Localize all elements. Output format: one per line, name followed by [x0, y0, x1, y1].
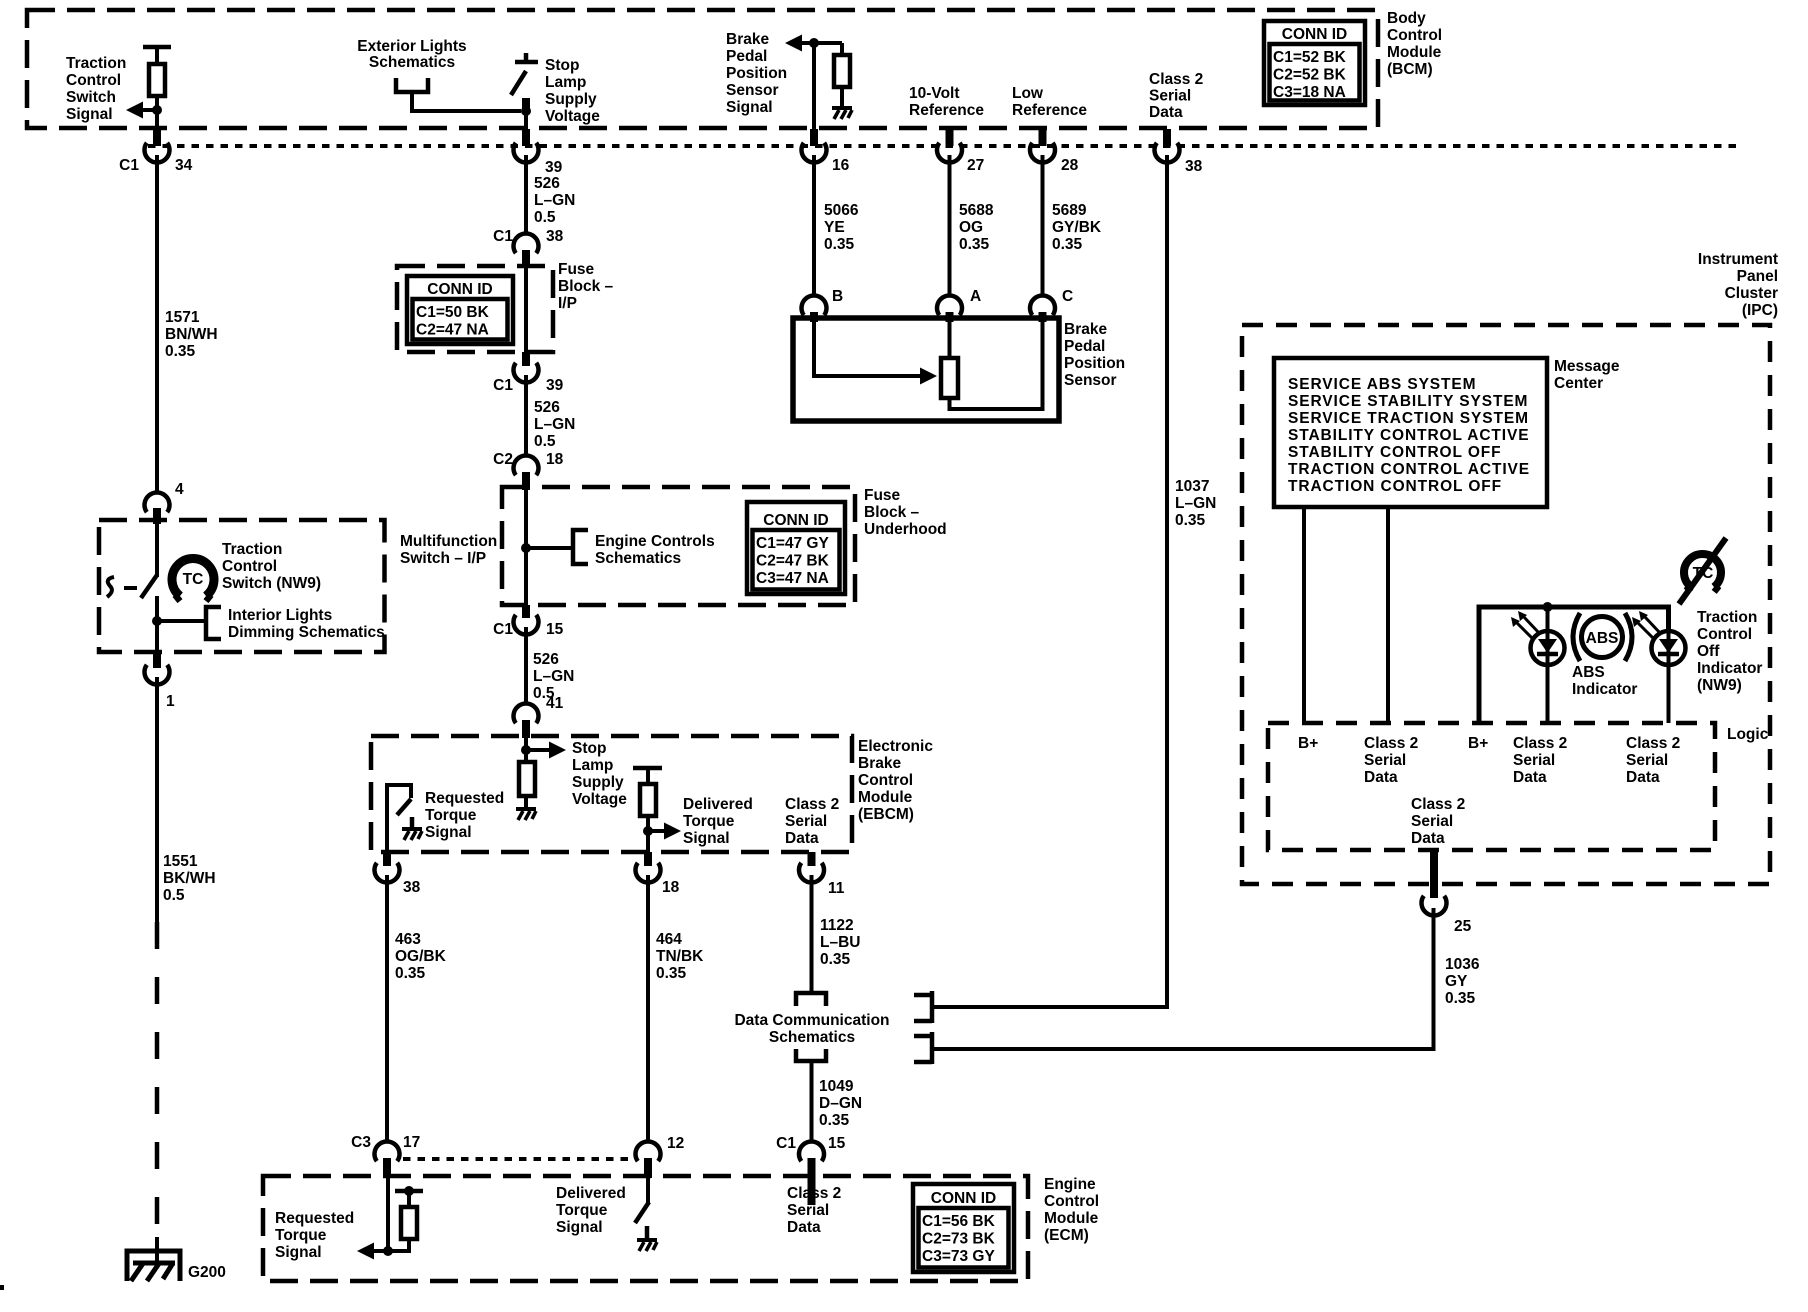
LED ABS indicator lamp: [1531, 631, 1565, 665]
svg-text:Pedal: Pedal: [1064, 338, 1105, 355]
emission arrows TC off LED: [1637, 616, 1661, 639]
svg-text:0.35: 0.35: [1175, 512, 1206, 529]
svg-text:Off: Off: [1697, 643, 1720, 660]
svg-text:Signal: Signal: [66, 106, 113, 123]
svg-text:A: A: [970, 288, 981, 305]
svg-text:Class 2: Class 2: [1513, 735, 1567, 752]
svg-text:0.35: 0.35: [395, 965, 426, 982]
svg-text:Torque: Torque: [275, 1227, 327, 1244]
module box Fuse Block IP: [397, 266, 553, 352]
resistor BCM traction-control-switch pull-up: [143, 45, 171, 50]
svg-text:C1: C1: [493, 621, 513, 638]
svg-text:Traction: Traction: [66, 55, 126, 72]
connector C2-18 fuse block underhood: [514, 455, 539, 475]
wire BCM pin34 internal: [155, 96, 159, 146]
ground BCM internal: [832, 106, 852, 110]
svg-text:C2: C2: [493, 451, 513, 468]
svg-text:CONN ID: CONN ID: [427, 281, 492, 298]
wire BCM pin16 internal: [812, 43, 816, 146]
svg-text:Module: Module: [1387, 44, 1442, 61]
parenthesis right of ABS: [1625, 613, 1632, 661]
svg-text:C1=56 BK: C1=56 BK: [922, 1213, 996, 1230]
svg-text:L–GN: L–GN: [1175, 495, 1216, 512]
connector pin 34 at BCM: [153, 129, 161, 146]
CONN ID table Fuse Block IP C1=50 BK C2=47 NA: [407, 276, 513, 344]
connector pin 28 at BCM: [1039, 129, 1047, 146]
svg-text:Position: Position: [1064, 355, 1125, 372]
wire ECM pin 17 internal: [386, 1178, 390, 1251]
svg-text:10-Volt: 10-Volt: [909, 85, 960, 102]
svg-text:Schematics: Schematics: [369, 54, 455, 71]
svg-text:Class 2: Class 2: [1149, 71, 1203, 88]
svg-text:C2=47 NA: C2=47 NA: [416, 322, 489, 339]
wire ABS LED to logic: [1546, 664, 1550, 723]
svg-text:0.35: 0.35: [1445, 990, 1476, 1007]
svg-text:Data Communication: Data Communication: [734, 1012, 889, 1029]
wire 5688 OG 0.35: [948, 155, 952, 297]
svg-text:Torque: Torque: [556, 1202, 608, 1219]
svg-text:Control: Control: [1697, 626, 1752, 643]
svg-text:39: 39: [546, 377, 564, 394]
svg-text:Lamp: Lamp: [545, 74, 586, 91]
svg-text:Module: Module: [858, 789, 913, 806]
wire BCM pin28 internal stub: [1039, 128, 1047, 146]
svg-text:Delivered: Delivered: [556, 1185, 626, 1202]
svg-text:Brake: Brake: [1064, 321, 1107, 338]
svg-text:0.5: 0.5: [534, 433, 556, 450]
svg-text:18: 18: [662, 879, 680, 896]
svg-text:1037: 1037: [1175, 478, 1209, 495]
wire message center B+ feed: [1302, 507, 1306, 723]
svg-text:463: 463: [395, 931, 421, 948]
svg-text:Brake: Brake: [858, 755, 901, 772]
wire 526 L-GN 0.5 segment 2: [524, 375, 528, 456]
svg-text:C: C: [1062, 288, 1073, 305]
svg-text:Data: Data: [1411, 830, 1445, 847]
svg-text:SERVICE ABS SYSTEM: SERVICE ABS SYSTEM: [1288, 376, 1476, 393]
wire B+ rail for indicator LEDs: [1479, 607, 1669, 723]
svg-text:Voltage: Voltage: [572, 791, 627, 808]
svg-text:ABS: ABS: [1572, 664, 1605, 681]
svg-text:38: 38: [546, 228, 564, 245]
svg-text:41: 41: [546, 695, 564, 712]
wire 5066 YE 0.35: [812, 155, 816, 297]
module box ECM (Engine Control Module): [263, 1176, 1028, 1281]
svg-text:C1: C1: [493, 228, 513, 245]
page speck artifact bottom-left: [0, 1285, 4, 1290]
wire arrow Requested Torque Signal (ECM): [374, 1249, 388, 1253]
wire arrow Stop Lamp Supply Voltage (EBCM): [526, 748, 553, 752]
off-page bracket Engine Controls Schematics: [573, 530, 588, 564]
module box IPC (Instrument Panel Cluster): [1242, 325, 1770, 884]
switch ECM delivered torque input: [646, 1178, 650, 1203]
wire 1036 GY 0.35 vertical: [1432, 908, 1436, 916]
node junction resistor supply bar: [404, 1186, 414, 1196]
svg-text:Engine Controls: Engine Controls: [595, 533, 715, 550]
svg-text:Class 2: Class 2: [1626, 735, 1680, 752]
svg-text:17: 17: [403, 1134, 420, 1151]
wire stop lamp into EBCM: [524, 738, 528, 762]
svg-text:OG: OG: [959, 219, 983, 236]
connector pin B sensor: [801, 295, 826, 315]
svg-text:C2=52 BK: C2=52 BK: [1273, 67, 1347, 84]
svg-text:Pedal: Pedal: [726, 48, 767, 65]
svg-text:Traction: Traction: [222, 541, 282, 558]
svg-text:Reference: Reference: [1012, 102, 1087, 119]
svg-text:464: 464: [656, 931, 682, 948]
svg-text:28: 28: [1061, 157, 1079, 174]
svg-text:GY/BK: GY/BK: [1052, 219, 1102, 236]
svg-text:1: 1: [166, 693, 175, 710]
off-page bracket bottom Data Communication: [796, 1049, 826, 1061]
svg-text:L–GN: L–GN: [533, 668, 574, 685]
svg-text:Supply: Supply: [545, 91, 597, 108]
svg-text:526: 526: [533, 651, 559, 668]
svg-text:Serial: Serial: [785, 813, 827, 830]
svg-text:TRACTION CONTROL OFF: TRACTION CONTROL OFF: [1288, 478, 1502, 495]
wire 1122 L-BU 0.35: [810, 875, 814, 991]
connector pin 27 at BCM: [946, 129, 954, 146]
svg-text:Exterior Lights: Exterior Lights: [357, 38, 466, 55]
svg-text:C1=47 GY: C1=47 GY: [756, 535, 829, 552]
wire 1571 BN/WH 0.35: [155, 155, 159, 493]
svg-text:C3=47 NA: C3=47 NA: [756, 570, 829, 587]
wire harness connector row (dotted): [148, 144, 1736, 148]
svg-text:Control: Control: [1044, 1193, 1099, 1210]
svg-text:0.35: 0.35: [1052, 236, 1083, 253]
svg-text:TC: TC: [183, 571, 204, 588]
svg-text:Serial: Serial: [1513, 752, 1555, 769]
svg-text:25: 25: [1454, 918, 1472, 935]
svg-text:CONN ID: CONN ID: [1282, 26, 1347, 43]
svg-text:Data: Data: [1513, 769, 1547, 786]
svg-text:38: 38: [1185, 158, 1203, 175]
connector pin 41 EBCM: [514, 703, 539, 723]
switch stop lamp relay contact in BCM: [515, 60, 538, 65]
module box BCM (Body Control Module): [27, 10, 1378, 128]
svg-text:B+: B+: [1468, 735, 1488, 752]
wire harness connector row ECM (dotted): [403, 1157, 636, 1161]
svg-text:Low: Low: [1012, 85, 1044, 102]
node junction exterior lights / stop lamp: [521, 106, 531, 116]
svg-text:ABS: ABS: [1586, 630, 1619, 647]
svg-text:Module: Module: [1044, 1210, 1099, 1227]
node junction engine controls tap: [521, 543, 531, 553]
svg-text:0.35: 0.35: [165, 343, 196, 360]
svg-text:Indicator: Indicator: [1572, 681, 1637, 698]
svg-text:B: B: [832, 288, 843, 305]
svg-text:Stop: Stop: [572, 740, 606, 757]
svg-text:Data: Data: [787, 1219, 821, 1236]
svg-text:B+: B+: [1298, 735, 1318, 752]
svg-text:Signal: Signal: [683, 830, 730, 847]
node junction ABS LED on rail: [1543, 602, 1553, 612]
svg-text:Signal: Signal: [425, 824, 472, 841]
svg-text:Serial: Serial: [1626, 752, 1668, 769]
svg-text:Torque: Torque: [683, 813, 735, 830]
wire resistor to ground (EBCM): [524, 796, 528, 809]
ground EBCM stop lamp: [516, 807, 536, 811]
svg-text:Class 2: Class 2: [785, 796, 839, 813]
svg-text:Center: Center: [1554, 375, 1603, 392]
wire arrow Delivered Torque Signal (EBCM): [648, 829, 668, 833]
svg-text:Message: Message: [1554, 358, 1620, 375]
svg-text:Signal: Signal: [556, 1219, 603, 1236]
svg-text:Fuse: Fuse: [558, 261, 595, 278]
svg-text:Underhood: Underhood: [864, 521, 947, 538]
wire 463 OG/BK 0.35: [385, 875, 389, 1142]
svg-text:27: 27: [967, 157, 984, 174]
svg-text:Interior Lights: Interior Lights: [228, 607, 332, 624]
connector pin 12 ECM: [635, 1141, 660, 1161]
svg-text:I/P: I/P: [558, 295, 577, 312]
parenthesis left of ABS: [1573, 613, 1580, 661]
svg-text:Electronic: Electronic: [858, 738, 933, 755]
svg-text:C2=73 BK: C2=73 BK: [922, 1231, 996, 1248]
svg-text:Cluster: Cluster: [1725, 285, 1778, 302]
svg-text:Class 2: Class 2: [787, 1185, 841, 1202]
wire TC off LED to logic: [1667, 664, 1671, 723]
svg-text:11: 11: [828, 880, 845, 897]
svg-text:Instrument: Instrument: [1698, 251, 1778, 268]
module box EBCM (Electronic Brake Control Module): [371, 736, 852, 852]
svg-text:G200: G200: [188, 1264, 226, 1281]
node junction requested torque arrow tap: [383, 1246, 393, 1256]
svg-text:TN/BK: TN/BK: [656, 948, 704, 965]
svg-text:Multifunction: Multifunction: [400, 533, 497, 550]
svg-text:Requested: Requested: [275, 1210, 354, 1227]
node junction interior lights dimming tap: [152, 616, 162, 626]
connector C1-15 ECM: [799, 1141, 824, 1161]
svg-text:39: 39: [545, 159, 563, 176]
wire to interior lights bracket: [157, 619, 206, 623]
svg-text:YE: YE: [824, 219, 845, 236]
svg-text:Schematics: Schematics: [769, 1029, 855, 1046]
wire 1036 GY 0.35 horizontal run: [934, 916, 1434, 1049]
component box Brake Pedal Position Sensor: [793, 318, 1059, 421]
svg-text:Signal: Signal: [275, 1244, 322, 1261]
svg-text:15: 15: [546, 621, 564, 638]
svg-text:D–GN: D–GN: [819, 1095, 862, 1112]
svg-text:SERVICE TRACTION SYSTEM: SERVICE TRACTION SYSTEM: [1288, 410, 1529, 427]
resistor EBCM stop lamp load: [519, 762, 535, 796]
node junction arrow tap pin34: [152, 105, 162, 115]
svg-text:C1=52 BK: C1=52 BK: [1273, 49, 1347, 66]
connector C1-39 below fuse block IP: [522, 352, 530, 366]
svg-text:(NW9): (NW9): [1697, 677, 1742, 694]
svg-text:0.35: 0.35: [959, 236, 990, 253]
connector pin 39 at BCM: [522, 129, 530, 146]
wire through fuse block IP: [524, 268, 528, 352]
svg-text:Switch – I/P: Switch – I/P: [400, 550, 486, 567]
svg-text:Sensor: Sensor: [1064, 372, 1117, 389]
wire resistor to ground: [840, 87, 844, 108]
svg-text:C1=50 BK: C1=50 BK: [416, 304, 490, 321]
wire ABS LED drop: [1546, 607, 1550, 632]
wire exterior lights feed: [412, 94, 521, 111]
connector pin A sensor: [937, 295, 962, 315]
svg-text:0.35: 0.35: [819, 1112, 850, 1129]
wire through fuse block underhood: [524, 490, 528, 605]
wire stub into G200: [155, 1237, 159, 1262]
wire sensor pin B to wiper arrow: [814, 321, 922, 376]
wire BCM pin27 internal stub: [946, 128, 954, 146]
svg-text:1036: 1036: [1445, 956, 1480, 973]
wire 526 L-GN 0.5 segment 3: [524, 627, 528, 704]
wire 1551 BK/WH 0.5 solid part: [155, 677, 159, 922]
resistor ECM requested torque pull-up: [388, 1239, 409, 1251]
svg-text:38: 38: [403, 879, 421, 896]
wire arrow brake pedal position sensor signal: [798, 41, 842, 45]
svg-text:Serial: Serial: [1411, 813, 1453, 830]
svg-text:12: 12: [667, 1135, 684, 1152]
node junction delivered torque arrow tap: [643, 826, 653, 836]
transistor EBCM delivered torque driver: supply bar and resistor: [633, 766, 662, 771]
wire arrow to Traction Control Switch Signal: [143, 108, 157, 112]
component box Message Center: [1274, 358, 1547, 507]
svg-text:Serial: Serial: [787, 1202, 829, 1219]
connector C1-15 below fuse block underhood: [522, 605, 530, 618]
wire 5689 GY/BK 0.35: [1041, 155, 1045, 297]
wire 1049 D-GN 0.35: [810, 1061, 814, 1142]
svg-text:SERVICE STABILITY SYSTEM: SERVICE STABILITY SYSTEM: [1288, 393, 1528, 410]
svg-text:Engine: Engine: [1044, 1176, 1096, 1193]
svg-text:Indicator: Indicator: [1697, 660, 1762, 677]
LED traction control off indicator lamp: [1652, 631, 1686, 665]
resistor BCM brake pedal signal pull-down: [840, 43, 844, 55]
off-page bracket class 2 to IPC side: [914, 1032, 932, 1064]
module box Multifunction Switch (TC switch): [99, 520, 385, 652]
CONN ID table ECM C1=56 BK C2=73 BK C3=73 GY: [913, 1184, 1014, 1272]
connector pin C sensor: [1030, 295, 1055, 315]
svg-text:Signal: Signal: [726, 99, 773, 116]
svg-text:Traction: Traction: [1697, 609, 1757, 626]
svg-text:Block –: Block –: [864, 504, 920, 521]
wire pot bottom to pin C: [950, 321, 1043, 409]
svg-text:C3: C3: [351, 1134, 371, 1151]
connector pin 4 multifunction switch: [144, 492, 169, 512]
svg-text:526: 526: [534, 399, 560, 416]
connector C3-17 ECM: [375, 1141, 400, 1161]
svg-text:Delivered: Delivered: [683, 796, 753, 813]
svg-text:C1: C1: [493, 377, 513, 394]
svg-text:Voltage: Voltage: [545, 108, 600, 125]
svg-text:C3=18 NA: C3=18 NA: [1273, 84, 1346, 101]
svg-text:L–GN: L–GN: [534, 192, 575, 209]
connector pin 1 below TC switch: [153, 652, 161, 668]
svg-text:C2=47 BK: C2=47 BK: [756, 553, 830, 570]
CONN ID table BCM C1=52 BK C2=52 BK C3=18 NA: [1264, 21, 1365, 105]
svg-text:Control: Control: [858, 772, 913, 789]
svg-text:Data: Data: [1364, 769, 1398, 786]
svg-text:CONN ID: CONN ID: [763, 512, 828, 529]
emission arrows ABS LED: [1516, 616, 1540, 639]
svg-text:Position: Position: [726, 65, 787, 82]
svg-text:TRACTION CONTROL ACTIVE: TRACTION CONTROL ACTIVE: [1288, 461, 1530, 478]
svg-text:OG/BK: OG/BK: [395, 948, 447, 965]
svg-text:BN/WH: BN/WH: [165, 326, 218, 343]
svg-text:Reference: Reference: [909, 102, 984, 119]
svg-text:Control: Control: [222, 558, 277, 575]
svg-text:Block –: Block –: [558, 278, 614, 295]
svg-text:Data: Data: [785, 830, 819, 847]
svg-text:1049: 1049: [819, 1078, 854, 1095]
svg-text:Torque: Torque: [425, 807, 477, 824]
ground ECM delivered torque: [645, 1226, 650, 1240]
connector pin 38 below EBCM: [383, 852, 391, 866]
connector pin 38 at BCM: [1163, 129, 1171, 146]
svg-text:L–GN: L–GN: [534, 416, 575, 433]
svg-text:Switch (NW9): Switch (NW9): [222, 575, 321, 592]
svg-text:15: 15: [828, 1135, 846, 1152]
svg-text:1551: 1551: [163, 853, 198, 870]
svg-text:526: 526: [534, 175, 560, 192]
svg-text:Requested: Requested: [425, 790, 504, 807]
icon ABS indicator circle: [1582, 617, 1623, 658]
svg-text:C1: C1: [776, 1135, 796, 1152]
connector C1-38 fuse block IP: [514, 233, 539, 253]
svg-text:0.35: 0.35: [656, 965, 687, 982]
module box Fuse Block Underhood: [502, 487, 855, 605]
svg-text:5689: 5689: [1052, 202, 1087, 219]
svg-text:Control: Control: [1387, 27, 1442, 44]
svg-text:Body: Body: [1387, 10, 1426, 27]
svg-text:BK/WH: BK/WH: [163, 870, 216, 887]
connector pin 16 at BCM: [810, 129, 818, 146]
wiper arrow into potentiometer: [920, 368, 937, 385]
svg-text:(IPC): (IPC): [1742, 302, 1778, 319]
svg-text:Class 2: Class 2: [1364, 735, 1418, 752]
svg-text:Serial: Serial: [1364, 752, 1406, 769]
ground G200: [127, 1251, 180, 1281]
svg-text:C3=73 GY: C3=73 GY: [922, 1248, 995, 1265]
off-page bracket class 2 to BCM side: [914, 991, 932, 1023]
svg-text:STABILITY CONTROL ACTIVE: STABILITY CONTROL ACTIVE: [1288, 427, 1529, 444]
wire TC switch to interior lights node: [155, 596, 159, 652]
svg-text:1571: 1571: [165, 309, 200, 326]
svg-text:16: 16: [832, 157, 850, 174]
svg-text:CONN ID: CONN ID: [931, 1190, 996, 1207]
actuator squiggle and dashed link: [107, 577, 114, 597]
svg-text:Schematics: Schematics: [595, 550, 681, 567]
svg-text:0.35: 0.35: [820, 951, 851, 968]
svg-text:(EBCM): (EBCM): [858, 806, 914, 823]
svg-text:0.35: 0.35: [824, 236, 855, 253]
svg-text:Control: Control: [66, 72, 121, 89]
wire 1551 dashed run to G200: [155, 922, 160, 1246]
svg-text:Fuse: Fuse: [864, 487, 901, 504]
CONN ID table Fuse Block Underhood C1=47 GY C2=47 BK C3=47 NA: [747, 502, 845, 594]
off-page bracket Exterior Lights Schematics: [396, 78, 428, 92]
svg-text:18: 18: [546, 451, 564, 468]
icon TC off indicator symbol with slash: [1684, 554, 1721, 587]
wire to engine controls bracket: [526, 546, 572, 550]
node junction pin16 internal: [809, 38, 819, 48]
icon TC traction control symbol: [172, 559, 214, 596]
svg-text:GY: GY: [1445, 973, 1468, 990]
switch EBCM requested torque output driver: [387, 785, 411, 852]
wire 526 L-GN 0.5 segment 1: [524, 155, 528, 234]
svg-text:STABILITY CONTROL OFF: STABILITY CONTROL OFF: [1288, 444, 1502, 461]
svg-text:Sensor: Sensor: [726, 82, 779, 99]
svg-text:L–BU: L–BU: [820, 934, 860, 951]
wire 1037 L-GN 0.35 (BCM pin 38 class 2): [934, 155, 1167, 1007]
svg-text:0.5: 0.5: [163, 887, 185, 904]
svg-text:4: 4: [175, 481, 184, 498]
svg-text:C1: C1: [119, 157, 139, 174]
svg-text:0.5: 0.5: [534, 209, 556, 226]
module box Logic (IPC internal): [1268, 723, 1715, 850]
